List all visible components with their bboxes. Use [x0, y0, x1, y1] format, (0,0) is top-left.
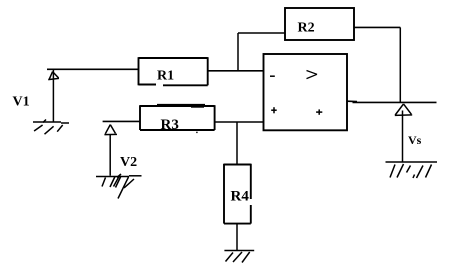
svg-text:Vs: Vs [408, 133, 422, 147]
svg-text:R2: R2 [298, 21, 315, 36]
svg-text:R1: R1 [157, 69, 174, 84]
svg-text:V2: V2 [120, 155, 137, 170]
svg-text:R4: R4 [231, 189, 250, 205]
svg-text:V1: V1 [13, 95, 30, 110]
svg-text:R3: R3 [161, 117, 179, 133]
